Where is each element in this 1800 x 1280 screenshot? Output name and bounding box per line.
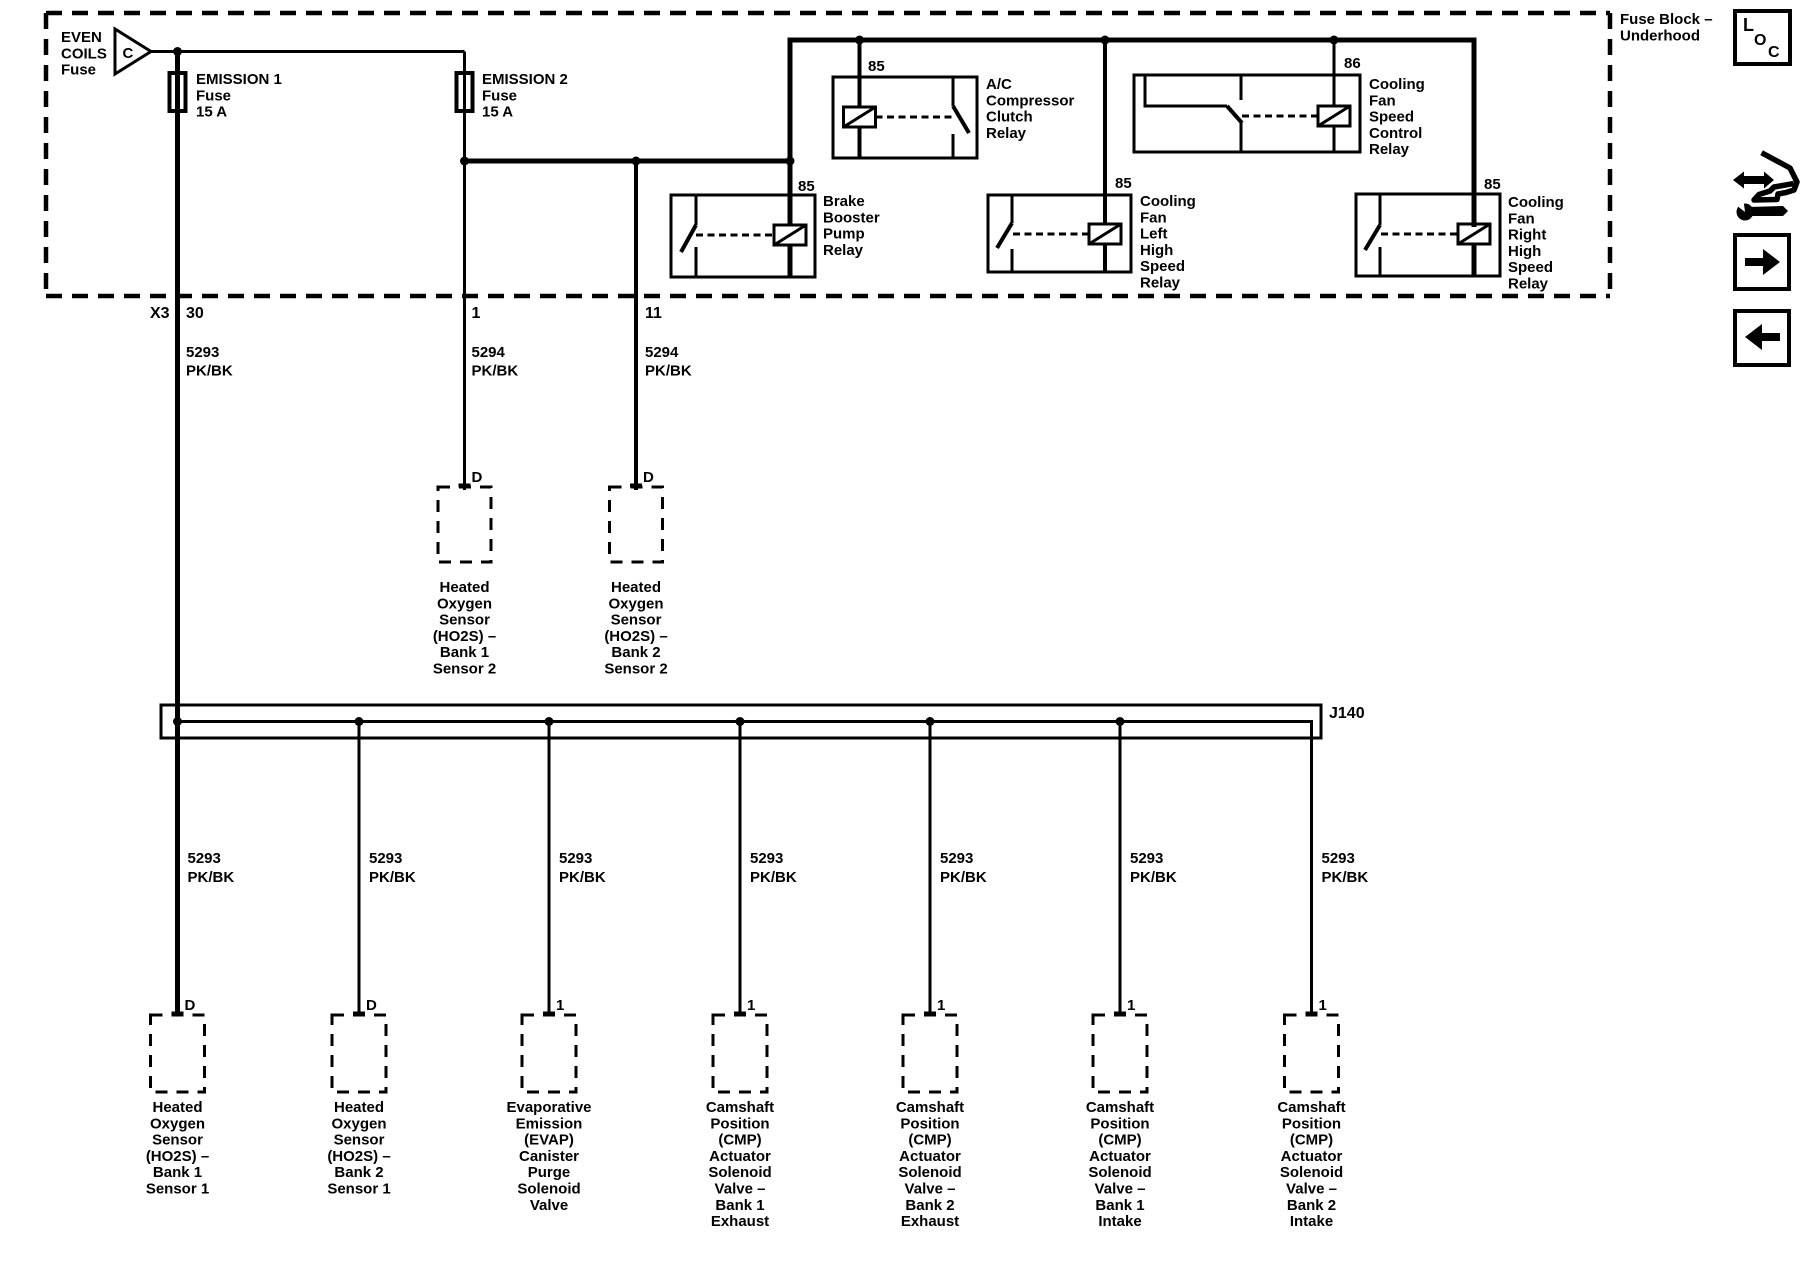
svg-text:Oxygen: Oxygen <box>150 1115 205 1132</box>
svg-text:EVEN: EVEN <box>61 29 102 46</box>
svg-text:5293: 5293 <box>1322 850 1355 867</box>
svg-text:15 A: 15 A <box>482 104 513 121</box>
svg-text:5293: 5293 <box>188 850 221 867</box>
svg-text:EMISSION 1: EMISSION 1 <box>196 71 282 88</box>
svg-text:Exhaust: Exhaust <box>711 1213 769 1230</box>
svg-text:Bank 1: Bank 1 <box>715 1197 764 1214</box>
svg-text:(CMP): (CMP) <box>908 1132 951 1149</box>
svg-text:Speed: Speed <box>1508 259 1553 276</box>
svg-text:85: 85 <box>1484 176 1501 193</box>
svg-text:5294: 5294 <box>472 344 506 361</box>
svg-text:Sensor 1: Sensor 1 <box>327 1181 390 1198</box>
svg-text:A/C: A/C <box>986 76 1012 93</box>
svg-text:Heated: Heated <box>439 579 489 596</box>
svg-text:Oxygen: Oxygen <box>331 1115 386 1132</box>
svg-text:Position: Position <box>1282 1115 1341 1132</box>
svg-text:Booster: Booster <box>823 209 880 226</box>
svg-text:1: 1 <box>556 997 564 1014</box>
svg-text:Actuator: Actuator <box>1281 1148 1343 1165</box>
svg-text:Relay: Relay <box>986 125 1027 142</box>
svg-text:Fuse: Fuse <box>482 87 517 104</box>
svg-text:Position: Position <box>900 1115 959 1132</box>
svg-text:Exhaust: Exhaust <box>901 1213 959 1230</box>
svg-text:(CMP): (CMP) <box>1098 1132 1141 1149</box>
svg-text:Speed: Speed <box>1369 109 1414 126</box>
svg-text:Intake: Intake <box>1290 1213 1333 1230</box>
svg-text:Intake: Intake <box>1098 1213 1141 1230</box>
svg-text:Heated: Heated <box>611 579 661 596</box>
svg-text:PK/BK: PK/BK <box>186 363 233 380</box>
svg-text:Actuator: Actuator <box>899 1148 961 1165</box>
svg-text:11: 11 <box>645 305 662 322</box>
svg-text:Bank 1: Bank 1 <box>1095 1197 1144 1214</box>
svg-text:EMISSION 2: EMISSION 2 <box>482 71 568 88</box>
svg-text:(HO2S) –: (HO2S) – <box>433 628 496 645</box>
svg-text:Emission: Emission <box>516 1115 583 1132</box>
svg-text:PK/BK: PK/BK <box>188 869 235 886</box>
svg-text:Solenoid: Solenoid <box>517 1181 580 1198</box>
svg-text:5293: 5293 <box>1130 850 1163 867</box>
svg-text:D: D <box>366 997 377 1014</box>
svg-text:X3: X3 <box>150 305 170 322</box>
svg-text:(EVAP): (EVAP) <box>524 1132 574 1149</box>
svg-text:Bank 1: Bank 1 <box>153 1164 202 1181</box>
svg-text:Valve –: Valve – <box>1095 1181 1146 1198</box>
svg-text:Relay: Relay <box>823 242 864 259</box>
svg-text:Bank 2: Bank 2 <box>905 1197 954 1214</box>
svg-text:Sensor: Sensor <box>439 612 490 629</box>
svg-text:Solenoid: Solenoid <box>708 1164 771 1181</box>
svg-text:PK/BK: PK/BK <box>1130 869 1177 886</box>
svg-text:Camshaft: Camshaft <box>706 1099 774 1116</box>
svg-text:Fuse: Fuse <box>61 62 96 79</box>
svg-text:1: 1 <box>937 997 945 1014</box>
svg-text:Relay: Relay <box>1140 275 1181 292</box>
svg-text:1: 1 <box>472 305 481 322</box>
svg-text:Cooling: Cooling <box>1508 194 1564 211</box>
svg-text:Heated: Heated <box>334 1099 384 1116</box>
svg-text:Left: Left <box>1140 226 1168 243</box>
svg-text:5293: 5293 <box>559 850 592 867</box>
svg-text:Canister: Canister <box>519 1148 579 1165</box>
svg-text:Bank 2: Bank 2 <box>611 644 660 661</box>
svg-text:Sensor: Sensor <box>152 1132 203 1149</box>
svg-text:Bank 2: Bank 2 <box>1287 1197 1336 1214</box>
svg-text:J140: J140 <box>1329 705 1365 722</box>
svg-text:Clutch: Clutch <box>986 109 1033 126</box>
svg-text:5293: 5293 <box>750 850 783 867</box>
svg-text:L: L <box>1743 15 1754 35</box>
svg-text:Oxygen: Oxygen <box>608 595 663 612</box>
svg-text:5293: 5293 <box>940 850 973 867</box>
svg-text:Position: Position <box>1090 1115 1149 1132</box>
svg-text:High: High <box>1508 243 1541 260</box>
svg-text:(CMP): (CMP) <box>1290 1132 1333 1149</box>
svg-text:Fan: Fan <box>1508 210 1535 227</box>
svg-text:Speed: Speed <box>1140 258 1185 275</box>
svg-text:Solenoid: Solenoid <box>1088 1164 1151 1181</box>
svg-text:COILS: COILS <box>61 45 107 62</box>
svg-text:PK/BK: PK/BK <box>750 869 797 886</box>
svg-text:PK/BK: PK/BK <box>472 363 519 380</box>
svg-text:86: 86 <box>1344 55 1361 72</box>
svg-text:5293: 5293 <box>369 850 402 867</box>
svg-text:Position: Position <box>710 1115 769 1132</box>
svg-text:Purge: Purge <box>528 1164 571 1181</box>
svg-text:1: 1 <box>1127 997 1135 1014</box>
svg-text:PK/BK: PK/BK <box>559 869 606 886</box>
svg-text:D: D <box>472 469 483 486</box>
svg-text:30: 30 <box>186 305 204 322</box>
svg-text:1: 1 <box>747 997 755 1014</box>
svg-text:Underhood: Underhood <box>1620 27 1700 44</box>
svg-text:Bank 1: Bank 1 <box>440 644 489 661</box>
svg-text:(HO2S) –: (HO2S) – <box>604 628 667 645</box>
svg-text:Brake: Brake <box>823 193 865 210</box>
svg-text:1: 1 <box>1319 997 1327 1014</box>
svg-text:Actuator: Actuator <box>1089 1148 1151 1165</box>
svg-text:Solenoid: Solenoid <box>1280 1164 1343 1181</box>
svg-text:(CMP): (CMP) <box>718 1132 761 1149</box>
svg-text:C: C <box>123 45 134 62</box>
svg-text:Fan: Fan <box>1369 92 1396 109</box>
svg-text:Pump: Pump <box>823 226 865 243</box>
svg-text:Compressor: Compressor <box>986 92 1075 109</box>
svg-text:Sensor 2: Sensor 2 <box>604 661 667 678</box>
svg-text:PK/BK: PK/BK <box>1322 869 1369 886</box>
svg-text:Right: Right <box>1508 227 1546 244</box>
svg-text:Heated: Heated <box>152 1099 202 1116</box>
svg-text:Camshaft: Camshaft <box>896 1099 964 1116</box>
svg-text:Sensor: Sensor <box>334 1132 385 1149</box>
svg-text:5293: 5293 <box>186 344 219 361</box>
svg-text:85: 85 <box>1115 175 1132 192</box>
svg-text:Fuse Block –: Fuse Block – <box>1620 11 1713 28</box>
svg-text:Valve –: Valve – <box>715 1181 766 1198</box>
svg-text:Evaporative: Evaporative <box>506 1099 591 1116</box>
svg-text:Oxygen: Oxygen <box>437 595 492 612</box>
svg-text:Valve –: Valve – <box>905 1181 956 1198</box>
svg-text:Fuse: Fuse <box>196 87 231 104</box>
svg-text:Valve: Valve <box>530 1197 568 1214</box>
svg-text:15 A: 15 A <box>196 104 227 121</box>
svg-text:Cooling: Cooling <box>1369 76 1425 93</box>
svg-text:Relay: Relay <box>1508 276 1549 293</box>
svg-text:PK/BK: PK/BK <box>940 869 987 886</box>
svg-text:Actuator: Actuator <box>709 1148 771 1165</box>
svg-text:Fan: Fan <box>1140 209 1167 226</box>
svg-text:PK/BK: PK/BK <box>645 363 692 380</box>
svg-text:85: 85 <box>798 178 815 195</box>
svg-text:Sensor 1: Sensor 1 <box>146 1181 209 1198</box>
svg-text:Control: Control <box>1369 125 1422 142</box>
svg-text:C: C <box>1768 44 1780 61</box>
svg-text:Sensor 2: Sensor 2 <box>433 661 496 678</box>
svg-text:Bank 2: Bank 2 <box>334 1164 383 1181</box>
svg-text:O: O <box>1754 32 1766 49</box>
svg-text:Camshaft: Camshaft <box>1086 1099 1154 1116</box>
svg-text:(HO2S) –: (HO2S) – <box>146 1148 209 1165</box>
svg-text:PK/BK: PK/BK <box>369 869 416 886</box>
svg-text:D: D <box>643 469 654 486</box>
svg-text:Cooling: Cooling <box>1140 193 1196 210</box>
svg-text:Valve –: Valve – <box>1286 1181 1337 1198</box>
svg-text:High: High <box>1140 242 1173 259</box>
svg-text:5294: 5294 <box>645 344 679 361</box>
svg-text:85: 85 <box>868 58 885 75</box>
svg-text:Relay: Relay <box>1369 141 1410 158</box>
svg-text:(HO2S) –: (HO2S) – <box>327 1148 390 1165</box>
svg-text:D: D <box>185 997 196 1014</box>
svg-text:Solenoid: Solenoid <box>898 1164 961 1181</box>
svg-text:Camshaft: Camshaft <box>1277 1099 1345 1116</box>
svg-text:Sensor: Sensor <box>611 612 662 629</box>
